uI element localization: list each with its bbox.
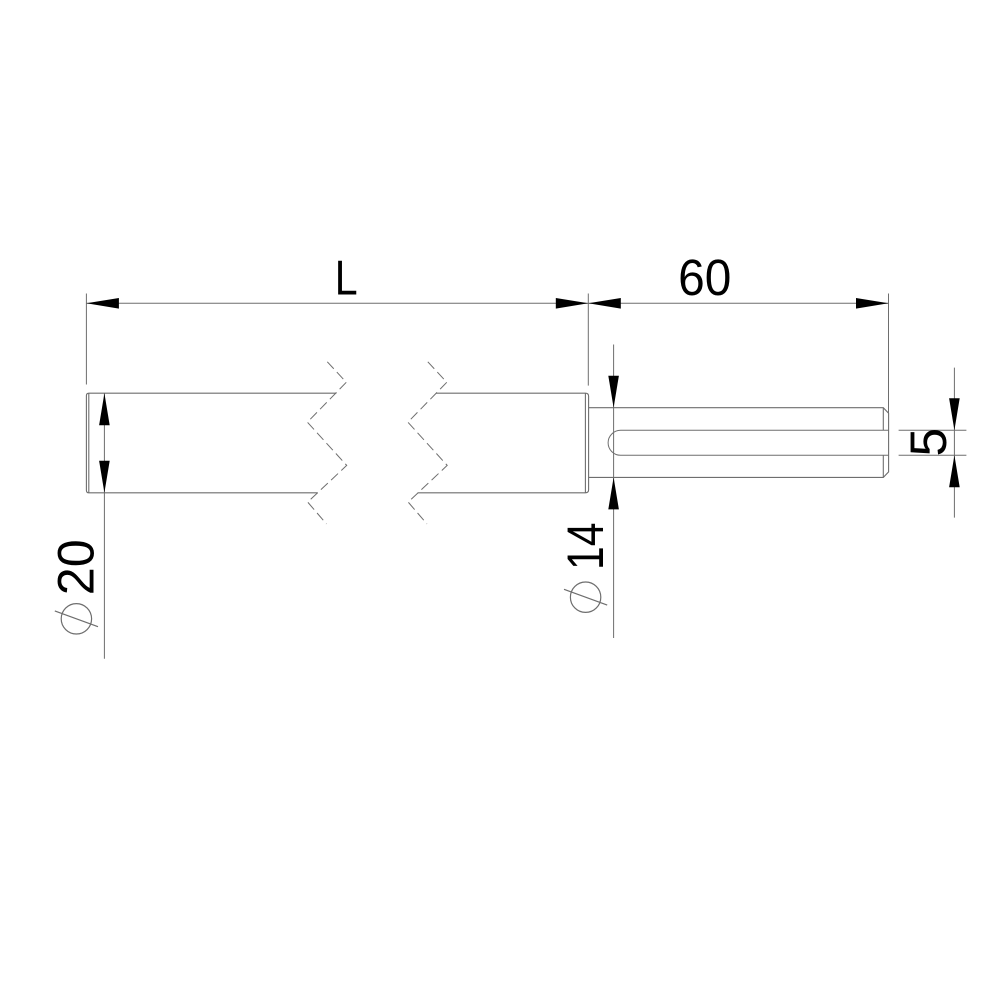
arrow 5 down (top) [949,398,960,430]
left end tangent line [88,393,90,493]
dimension line 5 vertical [953,368,955,518]
svg-text:14: 14 [556,523,614,571]
shoulder tangent line [584,393,586,493]
slot 5mm [608,430,889,455]
arrow Ø14 down (top) [608,376,619,408]
shaft body Ø20 left half outline [86,393,336,493]
extension line slot top (5) [899,429,967,431]
break line right (zigzag) [408,362,447,524]
diameter symbol for 14: slash [564,589,607,605]
diameter symbol for 14: circle [570,582,600,612]
arrow Ø20 up [99,393,110,425]
dimension line L [86,302,588,304]
diameter symbol for 20: circle [61,604,91,634]
chamfer edge line bottom [882,455,884,477]
arrow 5 up (bottom) [949,455,960,487]
arrow Ø14 up (bottom) [608,477,619,509]
extension line slot bottom (5) [899,454,967,456]
shaft body Ø20 right half outline [418,393,589,493]
break line left (zigzag) [307,362,346,524]
dimension line 60 [588,302,888,304]
arrow L left [86,298,119,309]
extension line middle (L/60) [587,294,589,386]
svg-text:5: 5 [899,428,957,457]
arrow 60 right [856,298,889,309]
dimension line Ø14 vertical [613,345,615,639]
svg-text:20: 20 [47,539,105,595]
extension line right (60) [888,294,890,414]
svg-text:L: L [335,251,358,305]
shaft end Ø14 section outline [589,408,889,478]
svg-text:60: 60 [678,249,731,306]
arrow 60 left [588,298,621,309]
dimension line Ø20 vertical [103,393,105,659]
arrow L right [556,298,589,309]
extension line left (L) [85,294,87,385]
diameter symbol for 20: slash [55,611,98,627]
chamfer edge line top [882,408,884,431]
arrow Ø20 down [99,461,110,493]
